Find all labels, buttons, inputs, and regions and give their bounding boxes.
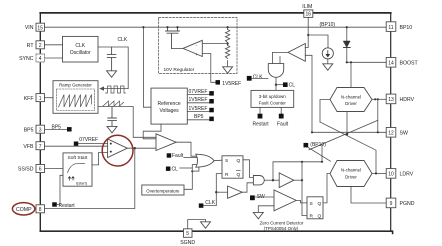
svg-text:N-channel: N-channel <box>341 94 361 99</box>
svg-text:KFF: KFF <box>24 96 34 102</box>
capacitor on CLK line <box>107 47 116 71</box>
svg-text:9: 9 <box>390 201 393 207</box>
node BP5 square near pin 3 <box>45 125 72 132</box>
svg-text:S: S <box>310 201 313 207</box>
wire ramp output <box>98 107 156 138</box>
ground under regulator divider <box>223 67 233 74</box>
pin BP5 3 <box>24 125 45 133</box>
svg-text:SW: SW <box>400 131 408 137</box>
pin ILIM 16 <box>302 4 313 18</box>
pin LDRV 10 <box>386 169 414 179</box>
wire reference to PWM comparator offset <box>143 124 161 139</box>
svg-text:6: 6 <box>39 167 42 173</box>
svg-text:Fault: Fault <box>172 153 184 159</box>
svg-text:8: 8 <box>39 207 42 213</box>
wire comparator to latch2 S <box>296 200 307 203</box>
svg-text:HDRV: HDRV <box>400 97 415 103</box>
wire comparator second input to SW rail <box>305 55 312 132</box>
ground under zero current comparator <box>253 212 263 219</box>
wire divider feedback to op-amp <box>202 43 227 45</box>
svg-text:COMP: COMP <box>16 207 32 213</box>
wire latch Q to AND gate <box>243 160 253 178</box>
svg-text:14: 14 <box>388 61 394 67</box>
wire OR gate output to PWM latch S <box>214 159 222 162</box>
node Restart square near soft start <box>52 202 75 209</box>
wire VIN rail to reference voltages <box>143 27 151 107</box>
wire RT to oscillator <box>45 44 63 46</box>
svg-text:07VREF: 07VREF <box>79 137 98 143</box>
node 07VREF square near error amp <box>74 137 108 146</box>
pin KFF 1 <box>24 94 45 102</box>
node 1V5REF square regulator <box>216 80 221 85</box>
svg-text:Q: Q <box>318 213 322 219</box>
wire SYNC to oscillator <box>45 57 63 59</box>
delay block at OR input <box>192 165 199 172</box>
svg-text:Restart: Restart <box>253 121 270 127</box>
pin HDRV 13 <box>386 94 414 104</box>
svg-text:15: 15 <box>37 25 43 31</box>
svg-text:10V Regulator: 10V Regulator <box>164 67 195 73</box>
wire AND to fault counter <box>275 78 277 91</box>
current source ILIM <box>308 35 333 64</box>
transistor pass FET of regulator <box>166 27 180 48</box>
red annotation circle around error amp <box>102 135 133 166</box>
buffer amplifier B1 <box>228 186 243 198</box>
svg-text:Soft Start: Soft Start <box>68 155 89 161</box>
comparator zero current <box>274 190 296 211</box>
OR gate U2 <box>196 154 214 167</box>
ground under CLK capacitor <box>107 71 117 78</box>
svg-text:12: 12 <box>388 131 394 137</box>
svg-text:Q: Q <box>237 172 241 178</box>
svg-text:R: R <box>225 172 229 178</box>
svg-text:Overtemperature: Overtemperature <box>146 188 180 193</box>
svg-text:SYNC: SYNC <box>19 56 34 62</box>
svg-text:ILIM: ILIM <box>302 4 312 10</box>
pin SYNC 4 <box>19 54 44 62</box>
latch PWM S-R <box>222 156 243 178</box>
VIN rail / BP10 rail wire <box>45 26 387 28</box>
svg-text:I(start): I(start) <box>76 182 88 186</box>
ground symbol near SGND <box>201 222 211 229</box>
wire latch2 Q to lower driver input <box>323 174 330 203</box>
op-amp error amplifier <box>108 139 128 158</box>
svg-text:1V5REF: 1V5REF <box>222 81 241 87</box>
wire KFF to ramp generator <box>45 97 54 99</box>
diode boost <box>343 26 350 62</box>
wire buffer2 output joins riser <box>294 179 302 181</box>
wire overtemperature to OR gate <box>184 171 192 189</box>
svg-text:1V5REF: 1V5REF <box>189 97 208 103</box>
block Reference Voltages <box>151 88 187 124</box>
node Restart counter output <box>253 107 270 127</box>
wire SS/SD to soft start <box>45 168 64 170</box>
wire buffer output to AND gate <box>242 183 253 192</box>
svg-text:Voltages: Voltages <box>160 108 180 114</box>
svg-text:Fault Counter: Fault Counter <box>259 100 287 105</box>
buffer driver amplifier B2 <box>279 173 294 188</box>
svg-text:PGND: PGND <box>400 201 415 207</box>
svg-text:CLK: CLK <box>205 200 215 206</box>
wire BP10 square to lower driver <box>308 148 330 162</box>
arrowhead into ramp generator <box>99 86 104 90</box>
latch zero current S-R <box>307 197 323 220</box>
svg-text:Driver: Driver <box>345 174 357 179</box>
wire diagonal B BP10 to SW riser <box>309 120 378 150</box>
svg-text:S: S <box>225 158 228 164</box>
wire SW rail <box>312 131 386 133</box>
svg-text:(TPS40054 Only): (TPS40054 Only) <box>264 226 299 231</box>
svg-text:1: 1 <box>39 96 42 102</box>
chip boundary left rail <box>39 13 41 231</box>
pin VIN 15 <box>25 23 45 31</box>
wire HDRV output <box>372 98 386 100</box>
wire op-amp plus input to 1V5REF <box>202 54 215 83</box>
wire junction to buffer input <box>216 191 227 193</box>
clock pulse train glyph <box>106 86 126 93</box>
svg-text:Reference: Reference <box>158 101 181 107</box>
ground under ramp capacitor <box>107 126 117 132</box>
svg-text:10: 10 <box>388 172 394 178</box>
svg-text:R: R <box>310 213 314 219</box>
svg-text:BP5: BP5 <box>24 127 34 133</box>
svg-text:Ramp Generator: Ramp Generator <box>59 83 92 88</box>
node SW square <box>250 194 274 200</box>
driver N-channel upper <box>330 88 372 112</box>
svg-text:(BP10): (BP10) <box>310 142 326 148</box>
svg-text:Q: Q <box>318 201 322 207</box>
svg-text:SGND: SGND <box>180 240 195 246</box>
node 1V5REF second reference output <box>187 106 214 113</box>
wire HDRV junction down to SW <box>377 99 379 132</box>
wire oscillator CLK output <box>98 47 128 89</box>
block Soft Start <box>63 153 92 186</box>
svg-text:13: 13 <box>388 97 394 103</box>
node CLK square bottom <box>199 200 216 208</box>
svg-text:11: 11 <box>388 25 393 31</box>
wire VFB to error amplifier <box>45 145 108 147</box>
block Overtemperature <box>142 185 184 195</box>
svg-text:N-channel: N-channel <box>341 168 361 173</box>
svg-text:BOOST: BOOST <box>400 61 419 67</box>
svg-text:VFB: VFB <box>23 144 34 150</box>
svg-text:Driver: Driver <box>345 101 357 106</box>
chip boundary top rail <box>40 12 390 14</box>
svg-text:BP5: BP5 <box>52 125 62 131</box>
pin SGND 5 <box>180 229 195 246</box>
wire BOOST to upper driver <box>350 62 352 87</box>
svg-text:Q: Q <box>237 158 241 164</box>
node CL square near counter <box>276 82 295 88</box>
wire restart to soft start <box>57 175 63 204</box>
svg-text:7: 7 <box>39 144 42 150</box>
block 3-bit up/down Fault Counter <box>251 90 294 107</box>
wire error amp output to COMP pin <box>45 148 135 208</box>
op-amp PWM comparator <box>156 134 176 151</box>
driver N-channel lower <box>330 161 372 187</box>
AND gate G1 <box>253 176 264 185</box>
svg-text:CL: CL <box>289 82 296 88</box>
node Fault counter output <box>277 107 289 127</box>
sawtooth glyph on ramp output <box>103 101 124 106</box>
pin BP10 11 <box>386 22 412 32</box>
pin RT 2 <box>27 41 45 49</box>
svg-text:+: + <box>195 52 198 57</box>
op-amp U regulator (points left) <box>183 40 202 56</box>
svg-text:BP10: BP10 <box>400 25 413 31</box>
block Ramp Generator <box>53 81 98 114</box>
wire soft start output to error amp <box>92 153 108 165</box>
svg-text:CLK: CLK <box>253 74 263 80</box>
wire PWM comparator output to OR gate <box>176 142 196 156</box>
svg-text:2: 2 <box>39 43 42 49</box>
capacitor on ramp output <box>108 107 117 127</box>
ground under current source <box>323 64 333 71</box>
svg-text:16: 16 <box>306 12 312 18</box>
wire BOOST rail <box>347 61 386 63</box>
wire LDRV output <box>372 172 386 174</box>
svg-text:Fault: Fault <box>277 121 289 127</box>
wire upper driver return <box>346 112 348 135</box>
wire AND output node <box>265 179 280 181</box>
pin PGND 9 <box>386 198 415 208</box>
wire diagonal A to LDRV <box>320 122 376 173</box>
svg-text:VIN: VIN <box>25 25 34 31</box>
wire ILIM comparator output to AND <box>273 52 289 63</box>
svg-text:BP5: BP5 <box>194 114 204 120</box>
svg-text:RT: RT <box>27 43 35 49</box>
pin SW 12 <box>386 128 408 138</box>
wire upper driver input <box>320 100 330 123</box>
svg-text:4: 4 <box>39 56 42 62</box>
node 1V5REF reference output <box>187 97 214 103</box>
pin BOOST 14 <box>386 58 418 68</box>
svg-text:3-bit up/down: 3-bit up/down <box>259 94 287 99</box>
chip boundary bottom rail <box>40 231 392 233</box>
wire regulator op-amp output to FET gate <box>172 47 184 49</box>
svg-text:07VREF: 07VREF <box>189 89 208 95</box>
svg-text:SS/SD: SS/SD <box>18 167 34 173</box>
node CLK square near counter <box>247 74 268 80</box>
wire SGND to signal ground <box>188 220 206 229</box>
node 07VREF reference output <box>187 89 214 96</box>
svg-text:CLK: CLK <box>118 37 128 43</box>
block CLK Oscillator <box>63 36 99 62</box>
svg-text:1V5REF: 1V5REF <box>189 106 208 112</box>
node Fault square input <box>167 153 197 159</box>
wire error amp output node <box>127 147 156 149</box>
wire ILIM pin to comparator <box>305 17 308 47</box>
svg-text:LDRV: LDRV <box>400 172 414 178</box>
pin COMP 8 <box>16 205 44 213</box>
wire CLK to PWM latch R input <box>203 174 222 206</box>
pin VFB 7 <box>23 142 44 150</box>
wire driver logic riser <box>273 162 322 216</box>
svg-text:Oscillator: Oscillator <box>70 50 91 56</box>
svg-text:CLK: CLK <box>75 43 85 49</box>
pin SS/SD 6 <box>18 165 45 173</box>
svg-text:5: 5 <box>186 231 189 237</box>
comparator ILIM (points left) <box>288 44 305 62</box>
AND gate fault clock (points down) <box>268 64 283 78</box>
block 10V Regulator dashed box <box>159 17 237 73</box>
resistor divider of regulator <box>227 27 229 67</box>
svg-text:(BP10): (BP10) <box>320 22 336 28</box>
node BP5 reference output <box>187 114 214 121</box>
wire zero current comparator plus input to ground <box>258 206 274 213</box>
node CL square input <box>166 166 192 172</box>
svg-text:CL: CL <box>172 166 179 172</box>
node (BP10) square mid <box>304 142 327 148</box>
wire lower driver return to PGND <box>351 187 386 204</box>
svg-text:3: 3 <box>39 127 42 133</box>
wire riser stub to diagonal B <box>321 145 323 162</box>
red annotation ellipse around COMP <box>12 203 34 215</box>
chip boundary right rail <box>390 13 392 231</box>
